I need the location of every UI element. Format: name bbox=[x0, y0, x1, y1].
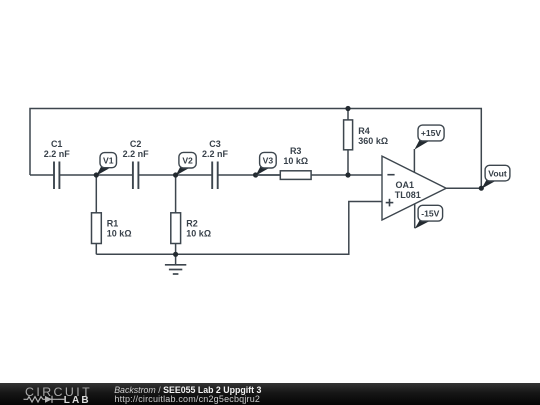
svg-text:V1: V1 bbox=[103, 155, 114, 165]
svg-text:10 kΩ: 10 kΩ bbox=[186, 229, 211, 239]
svg-text:C1: C1 bbox=[51, 139, 63, 149]
svg-text:LAB: LAB bbox=[64, 395, 91, 405]
svg-text:10 kΩ: 10 kΩ bbox=[107, 229, 132, 239]
svg-text:Vout: Vout bbox=[488, 168, 507, 178]
svg-text:+15V: +15V bbox=[421, 128, 442, 138]
svg-text:R2: R2 bbox=[186, 219, 198, 229]
svg-text:2.2 nF: 2.2 nF bbox=[202, 149, 229, 159]
svg-text:V3: V3 bbox=[263, 155, 274, 165]
svg-text:OA1: OA1 bbox=[396, 180, 415, 190]
svg-text:R3: R3 bbox=[290, 146, 302, 156]
svg-text:V2: V2 bbox=[182, 155, 193, 165]
svg-text:C2: C2 bbox=[130, 139, 142, 149]
svg-text:10 kΩ: 10 kΩ bbox=[283, 156, 308, 166]
svg-text:360 kΩ: 360 kΩ bbox=[358, 136, 388, 146]
svg-text:R1: R1 bbox=[107, 219, 119, 229]
svg-text:TL081: TL081 bbox=[395, 190, 421, 200]
svg-text:-15V: -15V bbox=[421, 208, 439, 218]
svg-text:2.2 nF: 2.2 nF bbox=[44, 149, 71, 159]
svg-text:C3: C3 bbox=[209, 139, 221, 149]
svg-text:2.2 nF: 2.2 nF bbox=[123, 149, 150, 159]
svg-text:R4: R4 bbox=[358, 126, 370, 136]
svg-text:http://circuitlab.com/cn2g5ecb: http://circuitlab.com/cn2g5ecbqjru2 bbox=[114, 394, 260, 404]
